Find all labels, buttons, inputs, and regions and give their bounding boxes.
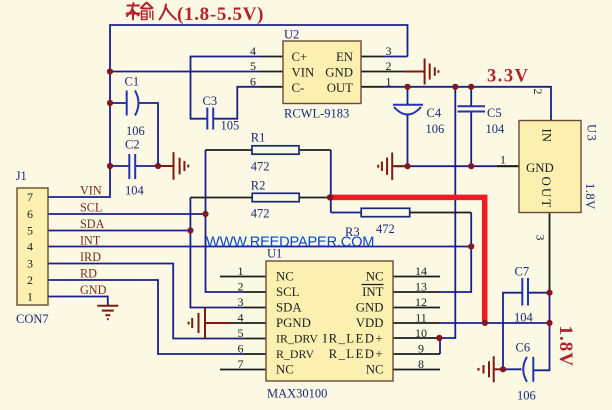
svg-text:14: 14 <box>415 264 427 278</box>
svg-text:U2: U2 <box>284 28 299 42</box>
svg-text:VIN: VIN <box>80 184 102 198</box>
svg-text:104: 104 <box>486 122 506 136</box>
svg-text:SCL: SCL <box>276 285 300 299</box>
svg-text:106: 106 <box>126 124 145 138</box>
svg-text:GND: GND <box>80 283 107 297</box>
svg-text:GND: GND <box>526 161 554 175</box>
svg-text:472: 472 <box>251 160 270 174</box>
svg-text:472: 472 <box>376 222 395 236</box>
svg-text:SDA: SDA <box>276 301 302 315</box>
svg-text:OUT: OUT <box>539 177 554 210</box>
svg-text:2: 2 <box>531 89 545 95</box>
svg-text:10: 10 <box>415 326 427 340</box>
svg-text:2: 2 <box>386 59 392 73</box>
svg-text:106: 106 <box>426 122 445 136</box>
svg-text:IR_DRV: IR_DRV <box>276 332 318 346</box>
svg-text:C7: C7 <box>515 265 530 279</box>
svg-text:GND: GND <box>356 301 384 315</box>
svg-text:C-: C- <box>292 81 305 95</box>
svg-text:104: 104 <box>514 311 534 325</box>
svg-text:5: 5 <box>238 326 244 340</box>
svg-text:PGND: PGND <box>276 316 311 330</box>
svg-text:IRD: IRD <box>80 250 101 264</box>
svg-text:GND: GND <box>325 66 353 80</box>
svg-text:4: 4 <box>27 240 33 254</box>
svg-text:C4: C4 <box>427 106 442 120</box>
svg-text:3: 3 <box>534 235 548 241</box>
svg-text:104: 104 <box>125 184 145 198</box>
svg-text:C5: C5 <box>487 106 502 120</box>
svg-text:C1: C1 <box>125 75 140 89</box>
svg-text:2: 2 <box>238 280 244 294</box>
svg-text:11: 11 <box>415 311 427 325</box>
svg-text:6: 6 <box>27 207 33 221</box>
svg-text:IR_LED+: IR_LED+ <box>323 332 384 346</box>
svg-text:IN: IN <box>540 129 554 143</box>
svg-text:VIN: VIN <box>292 66 315 80</box>
svg-text:7: 7 <box>238 357 244 371</box>
svg-text:NC: NC <box>276 270 294 284</box>
svg-text:INT: INT <box>362 285 384 299</box>
svg-text:RCWL-9183: RCWL-9183 <box>284 107 349 121</box>
svg-text:3: 3 <box>27 257 33 271</box>
svg-text:106: 106 <box>517 389 536 403</box>
svg-text:3: 3 <box>238 295 244 309</box>
svg-text:C+: C+ <box>292 50 308 64</box>
svg-text:13: 13 <box>415 280 427 294</box>
svg-text:5: 5 <box>27 224 33 238</box>
svg-text:CON7: CON7 <box>16 312 49 326</box>
svg-text:1: 1 <box>27 290 33 304</box>
svg-text:2: 2 <box>27 273 33 287</box>
svg-text:C6: C6 <box>516 341 531 355</box>
svg-text:4: 4 <box>250 44 256 58</box>
svg-text:R_DRV: R_DRV <box>276 347 314 361</box>
svg-text:EN: EN <box>336 50 353 64</box>
svg-text:R1: R1 <box>251 131 266 145</box>
svg-text:1.8V: 1.8V <box>583 183 597 210</box>
svg-text:NC: NC <box>276 363 294 377</box>
svg-text:OUT: OUT <box>327 81 353 95</box>
svg-text:INT: INT <box>80 234 101 248</box>
svg-text:105: 105 <box>221 119 240 133</box>
svg-text:SDA: SDA <box>80 217 105 231</box>
svg-text:J1: J1 <box>16 169 27 183</box>
svg-text:R_LED+: R_LED+ <box>329 347 384 361</box>
svg-text:U3: U3 <box>585 124 599 142</box>
svg-text:7: 7 <box>27 190 33 204</box>
svg-text:3: 3 <box>386 44 392 58</box>
svg-text:C3: C3 <box>203 94 218 108</box>
svg-text:WWW.REEDPAPER.COM: WWW.REEDPAPER.COM <box>206 235 374 251</box>
svg-text:472: 472 <box>251 207 270 221</box>
svg-text:(1.8-5.5V): (1.8-5.5V) <box>177 4 264 25</box>
svg-text:5: 5 <box>250 59 256 73</box>
svg-text:1: 1 <box>238 264 244 278</box>
svg-text:RD: RD <box>80 267 97 281</box>
svg-text:3.3V: 3.3V <box>487 67 530 87</box>
svg-text:1.8V: 1.8V <box>555 326 576 367</box>
svg-text:1: 1 <box>386 74 392 88</box>
svg-text:VDD: VDD <box>356 316 384 330</box>
svg-text:8: 8 <box>418 357 424 371</box>
svg-text:SCL: SCL <box>80 201 102 215</box>
svg-text:9: 9 <box>418 342 424 356</box>
svg-text:R2: R2 <box>251 179 266 193</box>
svg-text:12: 12 <box>415 295 427 309</box>
svg-text:MAX30100: MAX30100 <box>267 387 327 401</box>
svg-text:4: 4 <box>238 311 244 325</box>
svg-text:1: 1 <box>500 152 506 166</box>
svg-text:6: 6 <box>250 74 256 88</box>
svg-text:NC: NC <box>366 270 384 284</box>
svg-text:6: 6 <box>238 342 244 356</box>
svg-text:NC: NC <box>366 363 384 377</box>
svg-text:C2: C2 <box>125 138 140 152</box>
